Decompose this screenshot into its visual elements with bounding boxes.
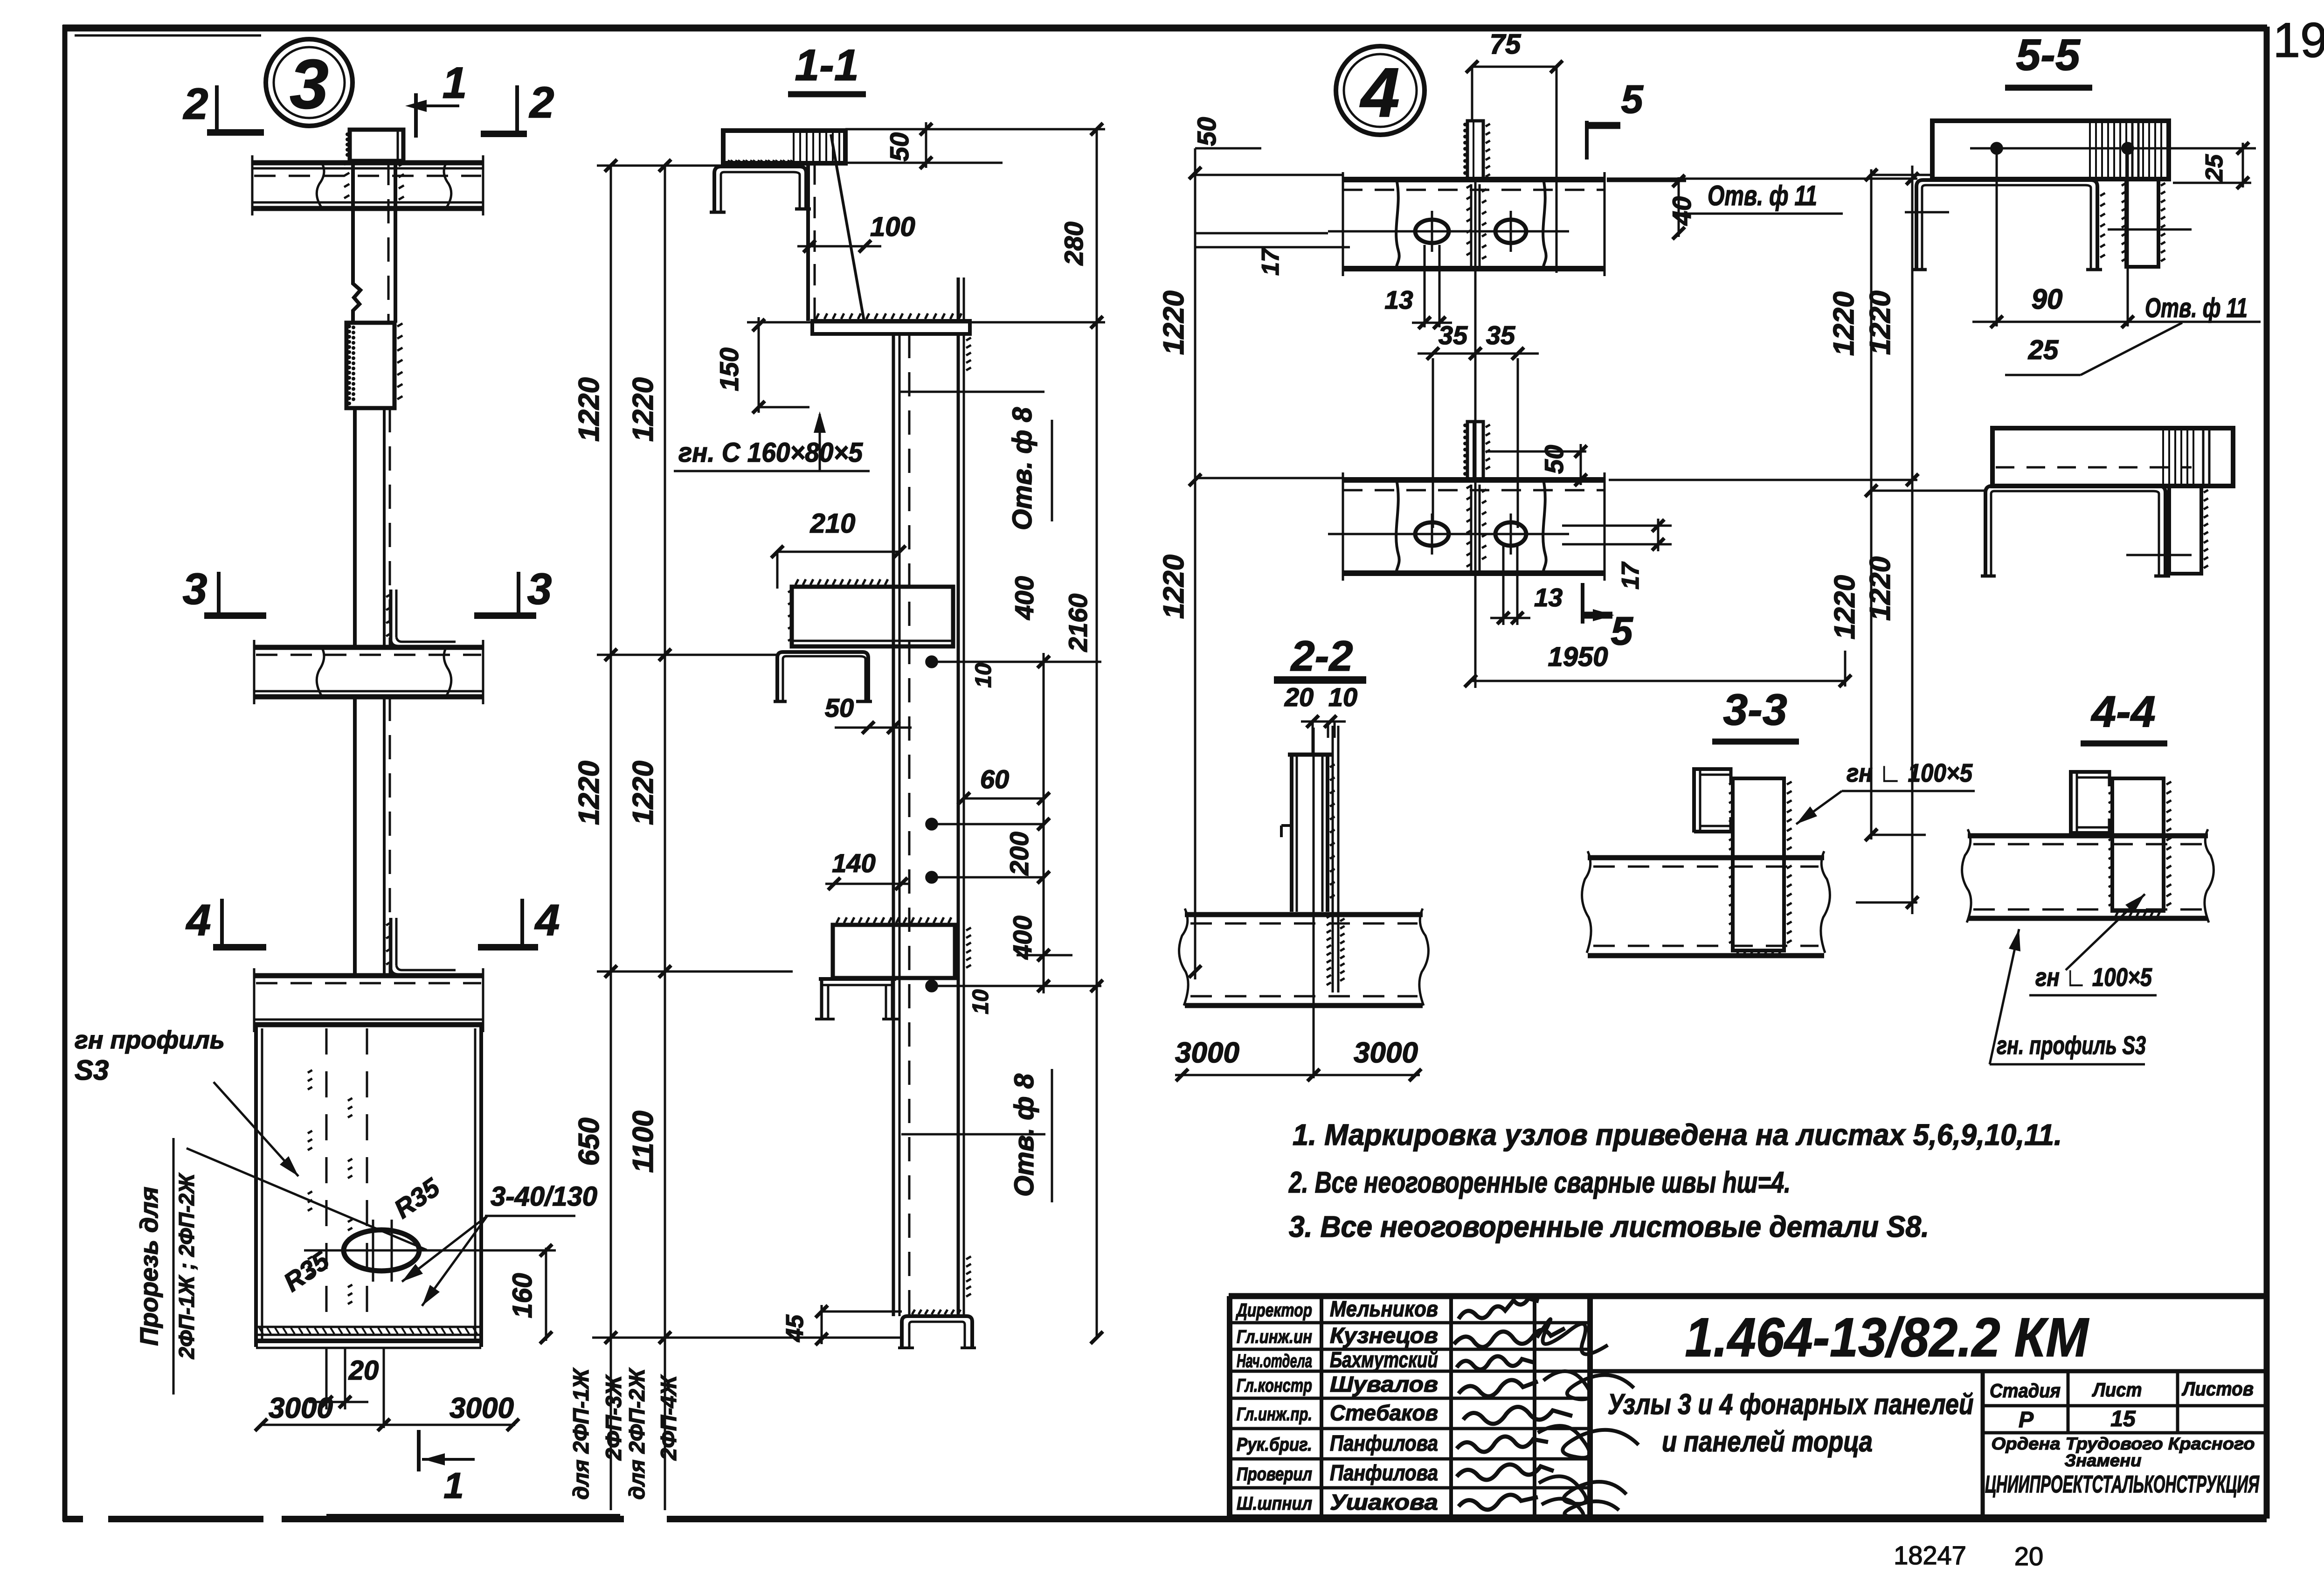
svg-text:400: 400 xyxy=(1010,576,1039,620)
svg-text:1220: 1220 xyxy=(627,761,659,825)
svg-text:Узлы 3 и 4 фонарных панелей: Узлы 3 и 4 фонарных панелей xyxy=(1608,1388,1974,1421)
svg-text:4: 4 xyxy=(534,895,560,945)
svg-text:280: 280 xyxy=(1059,222,1088,265)
svg-text:Листов: Листов xyxy=(2181,1378,2254,1400)
svg-text:5-5: 5-5 xyxy=(2016,30,2080,80)
svg-text:1220: 1220 xyxy=(627,377,659,442)
svg-text:5: 5 xyxy=(1611,609,1633,653)
svg-text:4: 4 xyxy=(1359,53,1399,132)
svg-text:Бахмутский: Бахмутский xyxy=(1330,1347,1438,1372)
svg-text:40: 40 xyxy=(1667,196,1696,226)
svg-text:10: 10 xyxy=(971,663,996,688)
svg-text:2: 2 xyxy=(529,78,554,127)
svg-text:60: 60 xyxy=(980,764,1009,794)
svg-text:Отв. ф 8: Отв. ф 8 xyxy=(1009,1073,1039,1196)
svg-text:1. Маркировка узлов при: 1. Маркировка узлов приведена на листах … xyxy=(1293,1118,2062,1152)
svg-text:Панфилова: Панфилова xyxy=(1330,1431,1438,1456)
svg-text:Проверил: Проверил xyxy=(1237,1464,1312,1485)
svg-text:3000: 3000 xyxy=(450,1392,514,1424)
svg-text:3-40/130: 3-40/130 xyxy=(491,1181,597,1212)
svg-text:17: 17 xyxy=(1617,562,1644,590)
svg-text:2160: 2160 xyxy=(1063,594,1093,652)
svg-text:3: 3 xyxy=(527,564,552,614)
svg-text:3000: 3000 xyxy=(269,1392,333,1424)
svg-text:3: 3 xyxy=(290,45,328,123)
svg-text:3-3: 3-3 xyxy=(1723,685,1787,735)
svg-text:Ордена Трудового Красного: Ордена Трудового Красного xyxy=(1992,1434,2255,1453)
svg-text:50: 50 xyxy=(1192,117,1221,146)
svg-text:140: 140 xyxy=(832,848,875,878)
svg-text:150: 150 xyxy=(714,347,744,391)
svg-text:ЦНИИПРОЕКТСТАЛЬКОНСТРУКЦИЯ: ЦНИИПРОЕКТСТАЛЬКОНСТРУКЦИЯ xyxy=(1985,1471,2260,1498)
svg-text:2: 2 xyxy=(183,79,208,129)
svg-text:S3: S3 xyxy=(75,1055,109,1086)
svg-text:гн ∟ 100×5: гн ∟ 100×5 xyxy=(2035,963,2152,992)
svg-text:200: 200 xyxy=(1004,832,1034,875)
svg-text:650: 650 xyxy=(573,1117,605,1166)
svg-text:75: 75 xyxy=(1490,28,1522,60)
svg-text:Гл.констр: Гл.констр xyxy=(1237,1375,1312,1396)
svg-text:400: 400 xyxy=(1008,916,1037,959)
svg-text:35: 35 xyxy=(1486,320,1515,350)
svg-text:4: 4 xyxy=(186,895,211,945)
svg-text:1: 1 xyxy=(443,1465,463,1506)
svg-text:Отв. ф 8: Отв. ф 8 xyxy=(1007,407,1037,530)
svg-text:1220: 1220 xyxy=(573,377,605,442)
svg-text:17: 17 xyxy=(1257,248,1284,276)
svg-text:3000: 3000 xyxy=(1354,1037,1418,1069)
svg-text:Кузнецов: Кузнецов xyxy=(1330,1323,1438,1348)
svg-text:2ФП-3Ж: 2ФП-3Ж xyxy=(601,1374,626,1461)
svg-text:19: 19 xyxy=(2273,13,2324,68)
svg-text:20: 20 xyxy=(1284,682,1314,712)
svg-text:3. Все неоговоренные лис: 3. Все неоговоренные листовые детали S8. xyxy=(1289,1210,1929,1243)
svg-text:1: 1 xyxy=(443,58,467,108)
svg-text:Ушакова: Ушакова xyxy=(1330,1490,1438,1514)
svg-text:Мельников: Мельников xyxy=(1330,1297,1438,1321)
svg-text:50: 50 xyxy=(1539,445,1569,474)
svg-text:5: 5 xyxy=(1621,77,1644,122)
svg-text:1220: 1220 xyxy=(1864,291,1896,355)
svg-text:Знамени: Знамени xyxy=(2065,1451,2142,1470)
svg-text:4-4: 4-4 xyxy=(2090,687,2155,736)
svg-text:160: 160 xyxy=(507,1273,538,1318)
svg-text:15: 15 xyxy=(2110,1407,2136,1431)
svg-text:Директор: Директор xyxy=(1236,1300,1312,1321)
svg-text:1100: 1100 xyxy=(627,1110,659,1173)
svg-text:210: 210 xyxy=(810,508,856,539)
svg-text:Стадия: Стадия xyxy=(1990,1380,2061,1402)
svg-text:гн. профиль S3: гн. профиль S3 xyxy=(1997,1031,2146,1060)
svg-text:100: 100 xyxy=(870,212,915,242)
svg-text:1220: 1220 xyxy=(1828,291,1860,356)
svg-text:Шувалов: Шувалов xyxy=(1330,1372,1438,1396)
svg-text:35: 35 xyxy=(1439,320,1468,350)
svg-text:50: 50 xyxy=(885,132,914,161)
svg-text:для 2ФП-1Ж: для 2ФП-1Ж xyxy=(568,1367,593,1499)
svg-text:Нач.отдела: Нач.отдела xyxy=(1237,1351,1312,1372)
svg-text:13: 13 xyxy=(1534,583,1563,612)
svg-text:1.464-13/82.2 КМ: 1.464-13/82.2 КМ xyxy=(1685,1307,2090,1368)
svg-text:20: 20 xyxy=(348,1355,379,1386)
svg-text:Стебаков: Стебаков xyxy=(1330,1401,1438,1425)
svg-text:гн профиль: гн профиль xyxy=(75,1026,225,1054)
svg-text:1220: 1220 xyxy=(1829,575,1861,639)
svg-text:Отв. ф 11: Отв. ф 11 xyxy=(2145,293,2248,323)
svg-text:10: 10 xyxy=(1328,682,1357,712)
svg-text:20: 20 xyxy=(2014,1541,2043,1571)
svg-text:Лист: Лист xyxy=(2092,1379,2142,1401)
svg-text:13: 13 xyxy=(1384,285,1413,314)
svg-text:25: 25 xyxy=(2201,154,2228,182)
svg-text:Отв. ф 11: Отв. ф 11 xyxy=(1708,180,1817,211)
svg-text:Панфилова: Панфилова xyxy=(1330,1460,1438,1485)
svg-text:1950: 1950 xyxy=(1548,642,1608,672)
svg-text:1220: 1220 xyxy=(1158,555,1190,619)
svg-text:1220: 1220 xyxy=(573,761,605,825)
svg-text:Ш.шпнил: Ш.шпнил xyxy=(1237,1493,1312,1514)
svg-text:2ФП-1Ж ; 2ФП-2Ж: 2ФП-1Ж ; 2ФП-2Ж xyxy=(174,1173,199,1360)
svg-text:2. Все неоговоренные сва: 2. Все неоговоренные сварные швы hш=4. xyxy=(1288,1166,1791,1199)
svg-text:Р: Р xyxy=(2019,1408,2034,1432)
svg-text:Рук.бриг.: Рук.бриг. xyxy=(1237,1435,1312,1455)
svg-text:10: 10 xyxy=(968,989,993,1014)
svg-text:1220: 1220 xyxy=(1864,556,1896,621)
svg-text:18247: 18247 xyxy=(1894,1540,1966,1570)
svg-text:гн ∟ 100×5: гн ∟ 100×5 xyxy=(1847,758,1973,787)
svg-text:45: 45 xyxy=(782,1314,809,1342)
svg-text:25: 25 xyxy=(2028,335,2059,365)
svg-text:Гл.инж.пр.: Гл.инж.пр. xyxy=(1237,1404,1312,1425)
svg-text:2-2: 2-2 xyxy=(1290,632,1353,680)
svg-text:3: 3 xyxy=(183,564,207,614)
svg-text:Гл.инж.ин: Гл.инж.ин xyxy=(1237,1327,1312,1347)
svg-text:1-1: 1-1 xyxy=(795,41,858,90)
svg-text:и панелей торца: и панелей торца xyxy=(1662,1426,1873,1458)
svg-text:для 2ФП-2Ж: для 2ФП-2Ж xyxy=(624,1367,649,1499)
svg-text:гн. С 160×80×5: гн. С 160×80×5 xyxy=(678,437,863,468)
svg-text:3000: 3000 xyxy=(1175,1037,1239,1069)
svg-text:Прорезь для: Прорезь для xyxy=(135,1186,163,1346)
svg-text:50: 50 xyxy=(825,693,854,722)
svg-text:2ФП-4Ж: 2ФП-4Ж xyxy=(656,1374,681,1461)
svg-text:1220: 1220 xyxy=(1158,291,1190,355)
svg-text:90: 90 xyxy=(2032,284,2063,315)
